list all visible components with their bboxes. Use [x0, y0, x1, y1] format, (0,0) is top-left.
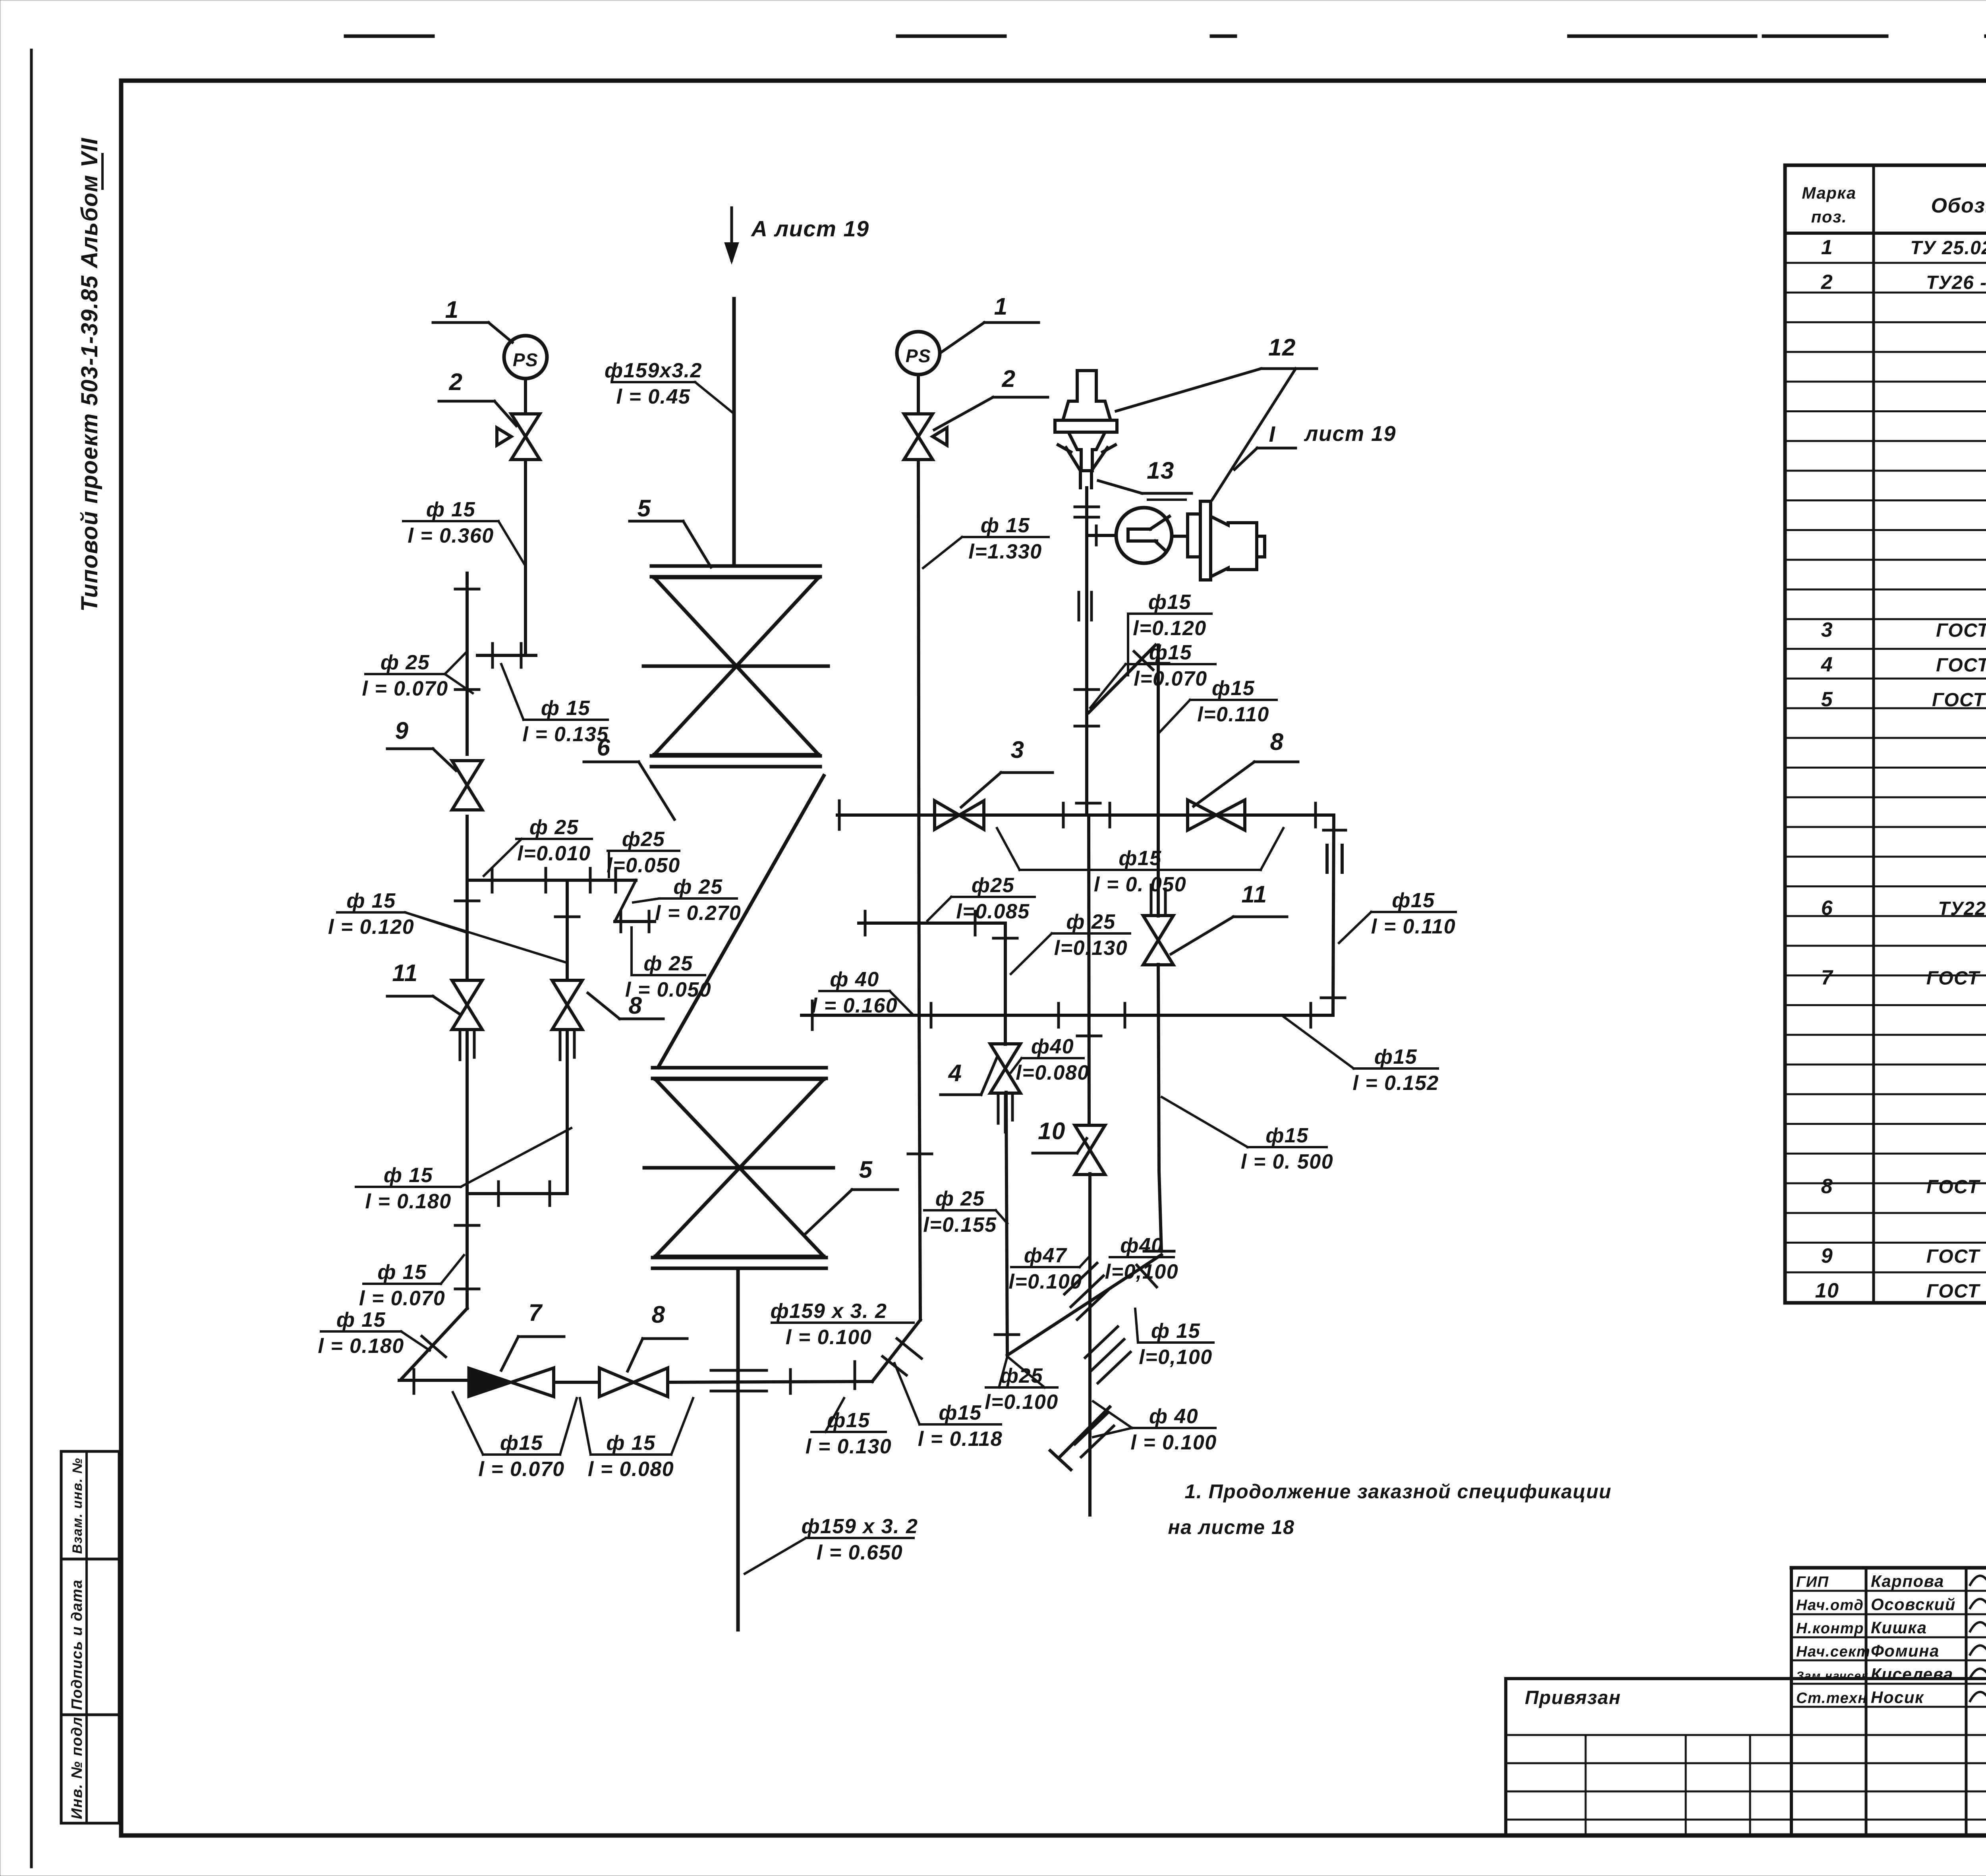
svg-text:l = 0.130: l = 0.130 — [806, 1435, 892, 1458]
valve 8b — [599, 1368, 668, 1397]
svg-text:l=0.050: l=0.050 — [607, 854, 680, 877]
position label 5 (upper gate valve) — [630, 495, 711, 567]
label ф15 l=1.330 — [923, 514, 1049, 568]
position label 8a — [588, 992, 663, 1019]
funnel feed 13 — [1058, 445, 1115, 488]
svg-text:6: 6 — [597, 734, 611, 761]
drain header right of valve 8b — [668, 1362, 872, 1393]
svg-text:1: 1 — [994, 293, 1008, 320]
svg-text:ф 40: ф 40 — [1149, 1405, 1198, 1428]
pipe gauge to valve 2 (left) — [524, 379, 527, 414]
drain header line left end — [399, 1370, 469, 1393]
union connector at left gauge line bottom — [477, 643, 536, 667]
svg-text:ф40: ф40 — [1120, 1234, 1163, 1257]
pressure gauge PS (left) — [504, 336, 547, 379]
svg-text:2: 2 — [1002, 365, 1016, 392]
svg-text:l = 0. 050: l = 0. 050 — [1094, 873, 1186, 896]
spec table body text — [1815, 236, 1986, 1302]
stub down to valve 8a — [555, 880, 579, 980]
svg-text:ГОСТ 18722-73*: ГОСТ 18722-73* — [1926, 1177, 1986, 1198]
svg-text:l = 0.135: l = 0.135 — [522, 723, 609, 746]
label ф25 l=0.010 — [484, 816, 592, 876]
svg-text:10: 10 — [1038, 1118, 1066, 1144]
label ф15 l=0.152 — [1284, 1017, 1439, 1095]
valve 11b — [1143, 916, 1173, 965]
svg-text:Фомина: Фомина — [1871, 1642, 1940, 1660]
valve 8c — [1188, 800, 1245, 830]
vent riser pipe — [1145, 645, 1169, 916]
svg-text:ф15: ф15 — [1265, 1124, 1308, 1147]
svg-text:Носик: Носик — [1871, 1688, 1924, 1707]
svg-text:l=0,100: l=0,100 — [1139, 1346, 1212, 1369]
manifold corner diagonal — [615, 880, 636, 922]
valve 11 (left) — [452, 980, 482, 1030]
svg-text:ГИП: ГИП — [1796, 1574, 1829, 1590]
label ф40 l=0.160 — [811, 968, 912, 1017]
vent riser lower corner — [1144, 1171, 1174, 1251]
spec table outer border — [1785, 165, 1986, 1303]
signatures scribbles — [1970, 1570, 1986, 1701]
label ф159x3.2 l=0.100 — [771, 1300, 914, 1349]
svg-text:l=0.100: l=0.100 — [1008, 1270, 1082, 1293]
pipe gauge to valve 2 (right) — [917, 375, 920, 414]
svg-text:l=0.010: l=0.010 — [517, 842, 591, 865]
hatch break marks group 3 — [1075, 1413, 1114, 1457]
left riser continues below valve 11 — [466, 1030, 469, 1194]
svg-text:11: 11 — [392, 960, 418, 986]
label ф25 l=0.270 — [633, 875, 741, 925]
position label 1 (right gauge) — [941, 293, 1039, 353]
position label 6 — [584, 734, 674, 819]
svg-text:Н.контр: Н.контр — [1796, 1620, 1864, 1637]
impulse header line 1 — [837, 801, 1334, 829]
title block outline — [1506, 1568, 1986, 1835]
svg-text:ф 15: ф 15 — [377, 1261, 427, 1284]
svg-text:ф 15: ф 15 — [336, 1308, 386, 1331]
position label 11 (right) — [1171, 881, 1287, 954]
branch to device 13 circle — [1087, 526, 1116, 545]
position label 12 — [1116, 334, 1317, 411]
valve 4 pipe continues down — [1006, 1092, 1007, 1355]
svg-text:l = 0.180: l = 0.180 — [365, 1190, 451, 1213]
position label 8c — [1194, 728, 1298, 806]
svg-text:6: 6 — [1821, 896, 1833, 920]
collector line 2 — [802, 1001, 1333, 1030]
valve 4 — [990, 1044, 1020, 1093]
svg-text:l = 0.650: l = 0.650 — [817, 1541, 903, 1564]
position label 2 (left three-way valve) — [439, 369, 516, 426]
svg-text:ф15: ф15 — [1392, 889, 1435, 912]
drain dashes below valve 11 — [460, 1031, 474, 1072]
position label 10 — [1033, 1118, 1087, 1153]
svg-text:ф25: ф25 — [622, 828, 665, 851]
label ф25 l=0.050 (second) — [625, 927, 711, 1001]
label ф15 l=0.180 (mid) — [356, 1128, 571, 1213]
svg-text:l = 0.45: l = 0.45 — [616, 385, 691, 408]
valve 4 stub below line 2 — [1004, 1015, 1007, 1044]
label ф15 l=0.070 (second) — [359, 1255, 464, 1310]
svg-text:PS: PS — [906, 346, 931, 366]
svg-text:l = 0.100: l = 0.100 — [1130, 1431, 1217, 1454]
svg-text:ГОСТ 8431-75*: ГОСТ 8431-75* — [1932, 690, 1986, 711]
label ф15 l=0.135 — [501, 664, 609, 746]
signature table grid — [1791, 1568, 1986, 1835]
spec table header bottom line — [1785, 232, 1986, 235]
spec table header text — [1802, 178, 1986, 226]
svg-text:l = 0.270: l = 0.270 — [655, 902, 741, 925]
label ф15 l=0.100 — [1135, 1309, 1213, 1369]
svg-text:ф 15: ф 15 — [541, 697, 590, 720]
svg-text:ф 15: ф 15 — [1151, 1320, 1200, 1343]
paper top edge (broken scan line) — [346, 35, 1986, 38]
svg-text:Нач.сект: Нач.сект — [1796, 1644, 1870, 1660]
position label 1 (left gauge) — [433, 296, 512, 342]
svg-text:l=0.085: l=0.085 — [956, 900, 1030, 923]
svg-text:l=0,100: l=0,100 — [1105, 1260, 1178, 1283]
sidebar box Подпись и дата — [61, 1559, 119, 1715]
label ф15 l=0.080 — [580, 1398, 693, 1481]
stub down to valve 11 left — [455, 880, 479, 980]
svg-text:12: 12 — [1268, 334, 1296, 361]
svg-text:l = 0.080: l = 0.080 — [588, 1458, 674, 1481]
svg-text:ф 15: ф 15 — [981, 514, 1030, 537]
lower connector between risers — [467, 1182, 567, 1206]
svg-text:7: 7 — [1821, 966, 1833, 989]
svg-text:Киселева: Киселева — [1871, 1665, 1953, 1683]
group action valve 6 GD-150 diagonal (Z symbol) — [658, 776, 824, 1067]
label ф15 l=0.130 — [806, 1398, 892, 1458]
leader 12 to lower regulator — [1212, 369, 1296, 500]
impulse pipe ф15 right (long drop) — [918, 460, 919, 1015]
pipe below valve 10 — [1088, 1174, 1092, 1515]
svg-text:1: 1 — [445, 296, 459, 323]
label ф15 l=0.110 (right) — [1339, 889, 1456, 943]
lower-left grid rows — [1506, 1735, 1986, 1835]
svg-text:ф159 х 3. 2: ф159 х 3. 2 — [802, 1515, 918, 1538]
position label 5 (lower gate valve) — [806, 1156, 898, 1233]
svg-text:Карпова: Карпова — [1871, 1572, 1944, 1590]
sidebar box Инв. № подл. — [61, 1712, 119, 1823]
svg-text:8: 8 — [629, 992, 643, 1019]
PS pipe below collector to drain diagonal — [908, 1015, 932, 1320]
svg-text:l = 0.070: l = 0.070 — [478, 1458, 564, 1481]
svg-text:Взам. инв. №: Взам. инв. № — [70, 1457, 85, 1554]
svg-text:Обозначение: Обозначение — [1931, 194, 1986, 217]
svg-text:ф47: ф47 — [1024, 1244, 1067, 1267]
label ф25 l=0.070 (left riser) — [362, 651, 473, 700]
big drain diagonal to valve4 pipe end — [1007, 1255, 1161, 1355]
diagonal drop to drain header — [402, 1308, 467, 1378]
svg-text:l = 0. 500: l = 0. 500 — [1241, 1150, 1333, 1173]
pressure regulator 12a (top) — [1055, 371, 1117, 471]
svg-text:ф159х3.2: ф159х3.2 — [605, 359, 702, 382]
label ф15 l=0.070 (drain) — [453, 1392, 577, 1481]
svg-text:А лист 19: А лист 19 — [750, 216, 869, 241]
label ф15 l=0.050 — [997, 828, 1283, 896]
svg-text:3: 3 — [1821, 618, 1833, 641]
svg-text:Нач.отд: Нач.отд — [1796, 1597, 1864, 1614]
label 13 second underline — [1148, 498, 1186, 501]
device 13 circle — [1116, 508, 1172, 563]
svg-text:8: 8 — [652, 1301, 666, 1328]
svg-text:l=0.110: l=0.110 — [1197, 703, 1269, 726]
valve 3 — [935, 801, 984, 829]
svg-text:l=0.120: l=0.120 — [1133, 617, 1206, 640]
svg-text:5: 5 — [859, 1156, 873, 1183]
label ф25 l=0.085 — [927, 874, 1035, 923]
svg-text:13: 13 — [1147, 457, 1175, 484]
drain header between valves — [554, 1381, 599, 1384]
hatch break marks group 1 — [1064, 1263, 1110, 1320]
svg-text:ф15: ф15 — [1374, 1045, 1417, 1068]
svg-text:2: 2 — [1821, 271, 1833, 294]
svg-text:ф 25: ф 25 — [529, 816, 579, 839]
manifold header line — [467, 868, 636, 892]
position label 3 — [961, 736, 1053, 807]
drain diagonal rise to PS pipe — [872, 1320, 922, 1381]
bottom drain tail with cap — [1050, 1407, 1110, 1470]
svg-text:ГОСТ 19501-74*: ГОСТ 19501-74* — [1926, 968, 1986, 989]
position label 7 — [501, 1299, 564, 1370]
svg-text:лист 19: лист 19 — [1304, 422, 1396, 446]
label ф47 l=0.100 — [1008, 1244, 1090, 1293]
spec table column lines — [1874, 165, 1986, 1303]
svg-text:ф159 х 3. 2: ф159 х 3. 2 — [771, 1300, 887, 1323]
position label 13 — [1098, 457, 1192, 493]
svg-text:Кишка: Кишка — [1871, 1618, 1927, 1637]
svg-text:Осовский: Осовский — [1871, 1595, 1956, 1614]
svg-text:ф 15: ф 15 — [384, 1164, 433, 1187]
gate valve 5 lower (GD-150 stack) — [644, 1068, 833, 1268]
branch ф25 upper (to line 2) — [859, 911, 1017, 1015]
svg-text:ТУ26 -07-061-73: ТУ26 -07-061-73 — [1926, 272, 1986, 294]
svg-text:ф 15: ф 15 — [606, 1432, 655, 1455]
svg-text:l=0.155: l=0.155 — [923, 1213, 997, 1236]
main pipe below lower gate valve — [736, 1268, 740, 1630]
svg-text:l=0.070: l=0.070 — [1134, 667, 1207, 690]
svg-text:l=0.080: l=0.080 — [1016, 1061, 1089, 1084]
label ф15 l=0.110 (first) — [1159, 677, 1277, 733]
svg-text:ф15: ф15 — [500, 1432, 543, 1455]
riser 8a continues below valve 8a — [566, 1030, 569, 1194]
signature table text — [1796, 1572, 1956, 1707]
svg-text:ф 15: ф 15 — [426, 498, 475, 521]
svg-text:7: 7 — [529, 1299, 543, 1326]
svg-text:ф 15: ф 15 — [346, 889, 396, 912]
svg-text:Подпись и дата: Подпись и дата — [69, 1579, 85, 1710]
svg-text:l=0.100: l=0.100 — [985, 1391, 1058, 1414]
svg-text:10: 10 — [1815, 1279, 1839, 1302]
svg-text:l = 0.070: l = 0.070 — [359, 1287, 445, 1310]
svg-text:ф15: ф15 — [1149, 641, 1192, 664]
svg-text:3: 3 — [1011, 736, 1025, 763]
impulse pipe from funnel down — [1075, 488, 1099, 815]
svg-text:l = 0.160: l = 0.160 — [811, 994, 898, 1017]
arrow А лист 19 — [725, 208, 869, 262]
svg-text:ф15: ф15 — [1148, 591, 1191, 614]
svg-text:8: 8 — [1270, 728, 1284, 755]
svg-text:1: 1 — [1821, 236, 1833, 259]
svg-text:Ст.техн: Ст.техн — [1796, 1690, 1868, 1707]
capped stub ф25 l=0.270 — [615, 911, 655, 932]
label ф25 l=0.050 (first) — [607, 828, 680, 877]
svg-text:ф 25: ф 25 — [643, 952, 693, 975]
label ф15 l=0.070 (right) — [1090, 641, 1215, 708]
svg-text:ф 25: ф 25 — [381, 651, 430, 674]
label ф15 l=0.120 (right) — [1128, 591, 1211, 675]
drain dashes below valve 8a — [560, 1031, 574, 1072]
svg-text:ф15: ф15 — [1119, 847, 1161, 870]
svg-text:ГОСТ 18722-73*: ГОСТ 18722-73* — [1926, 1281, 1986, 1302]
vent riser below valve 11b — [1158, 964, 1159, 1171]
left drop pipe with unions — [455, 1194, 479, 1308]
line 1 corner down — [1321, 815, 1346, 1015]
svg-text:8: 8 — [1821, 1175, 1833, 1198]
gate valve 5 upper (GD-150 stack) — [643, 566, 828, 767]
tick on valve 4 drop pipe — [995, 1333, 1019, 1336]
svg-text:9: 9 — [395, 717, 409, 744]
position label 2 (right three-way valve) — [934, 365, 1048, 430]
pressure gauge PS (right) — [897, 332, 940, 375]
svg-text:l = 0.100: l = 0.100 — [786, 1326, 872, 1349]
spec table row lines — [1785, 263, 1986, 1272]
label ф15 l=0.360 — [403, 498, 525, 566]
svg-text:ф15: ф15 — [939, 1401, 981, 1424]
svg-text:Зам.начсек: Зам.начсек — [1796, 1669, 1868, 1683]
paper left edge line — [30, 50, 33, 1867]
hatch break marks group 2 — [1085, 1327, 1130, 1383]
label ф40 l=0.100 (lower) — [1093, 1401, 1217, 1454]
svg-text:4: 4 — [1821, 653, 1833, 676]
label ф159x3.2 l=0.650 — [745, 1515, 918, 1574]
pressure regulator 12b (right) — [1188, 501, 1265, 580]
svg-text:Инв. № подл.: Инв. № подл. — [69, 1712, 85, 1819]
svg-text:l = 0.110: l = 0.110 — [1371, 915, 1456, 938]
pipe crossing break marks at big pipe — [711, 1370, 767, 1391]
svg-text:l = 0.118: l = 0.118 — [918, 1428, 1003, 1451]
svg-text:l = 0.360: l = 0.360 — [408, 524, 494, 547]
svg-text:ф25: ф25 — [972, 874, 1014, 897]
svg-text:1. Продолжение заказной: 1. Продолжение заказной спецификации — [1185, 1480, 1612, 1503]
svg-text:I: I — [1269, 421, 1275, 446]
connector circle to regulator 12b — [1172, 535, 1188, 538]
vent riser valve 11b with dashes — [1151, 885, 1165, 914]
label ф25 l=0.130 — [1011, 910, 1130, 974]
union bars on impulse pipe — [1079, 592, 1092, 620]
svg-text:ТУ22-3853-77: ТУ22-3853-77 — [1938, 898, 1986, 919]
svg-text:Марка: Марка — [1802, 184, 1856, 202]
svg-text:Типовой проект 503-1-39.85 Ал: Типовой проект 503-1-39.85 Альбом VII — [77, 137, 102, 612]
three-way valve 2 (right) — [904, 414, 947, 460]
svg-text:PS: PS — [513, 350, 538, 370]
left riser pipe ф25 — [455, 573, 479, 754]
main pipe ф159 upper — [732, 299, 736, 566]
svg-text:ф 40: ф 40 — [830, 968, 879, 991]
svg-text:ф 25: ф 25 — [1066, 910, 1115, 933]
svg-text:2: 2 — [449, 369, 463, 395]
sidebar inner divider — [85, 1451, 88, 1823]
svg-text:на листе 18: на листе 18 — [1168, 1516, 1295, 1538]
label ф15 l=0.118 — [894, 1363, 1003, 1451]
svg-text:4: 4 — [948, 1060, 962, 1086]
left margin stamp text Типовой проект 503-1-39.85 Альбом VII — [77, 137, 102, 612]
svg-text:l = 0.180: l = 0.180 — [318, 1335, 404, 1358]
svg-text:ГОСТ 2704-77: ГОСТ 2704-77 — [1936, 655, 1986, 676]
svg-text:ф 25: ф 25 — [935, 1187, 985, 1210]
svg-text:l = 0.070: l = 0.070 — [362, 677, 448, 700]
label ф15 l=0.180 (lower) — [318, 1308, 430, 1358]
svg-text:l = 0.120: l = 0.120 — [328, 916, 414, 939]
label ф15 l=0.120 (left) — [328, 889, 567, 963]
drain dashes below valve 4 — [998, 1094, 1012, 1132]
svg-text:5: 5 — [1821, 688, 1833, 711]
svg-text:l = 0.152: l = 0.152 — [1352, 1072, 1439, 1095]
svg-text:ГОСТ 18722-73*: ГОСТ 18722-73* — [1926, 1246, 1986, 1267]
svg-text:поз.: поз. — [1811, 207, 1847, 226]
svg-text:ф 25: ф 25 — [673, 875, 723, 898]
position label 4 — [941, 1057, 997, 1095]
check valve 7 — [469, 1368, 554, 1397]
svg-text:ТУ 25.02.181071-18: ТУ 25.02.181071-18 — [1910, 238, 1986, 259]
svg-text:ф40: ф40 — [1031, 1035, 1074, 1058]
sidebar box Взам. инв. № — [61, 1451, 119, 1559]
label ф159x3.2 l=0.45 — [605, 359, 733, 413]
position label 8b — [628, 1301, 687, 1371]
svg-text:l=1.330: l=1.330 — [968, 540, 1042, 563]
svg-text:11: 11 — [1241, 881, 1267, 908]
svg-text:5: 5 — [638, 495, 651, 522]
label ф40 l=0.100 (upper) — [1105, 1234, 1178, 1283]
drop pipe ф40 to valve 10 — [1076, 803, 1101, 1125]
svg-text:ф15: ф15 — [827, 1409, 870, 1432]
svg-text:9: 9 — [1821, 1244, 1833, 1267]
position label 11 (left) — [387, 960, 461, 1015]
svg-text:ф15: ф15 — [1212, 677, 1255, 700]
svg-text:ГОСТ 2704-77: ГОСТ 2704-77 — [1936, 620, 1986, 641]
svg-text:l=0.130: l=0.130 — [1054, 937, 1128, 960]
label ф15 l=0.500 — [1162, 1097, 1333, 1173]
position label 9 — [387, 717, 456, 771]
branch diagonal to vent riser — [1089, 645, 1155, 713]
label ф25 l=0.100 — [985, 1356, 1058, 1414]
valve 10 — [1075, 1125, 1105, 1175]
svg-text:Привязан: Привязан — [1525, 1687, 1621, 1708]
valve 9 — [452, 761, 482, 810]
label ф25 l=0.155 — [923, 1187, 1007, 1236]
text I лист 19 — [1234, 421, 1396, 469]
left riser pipe below valve 9 — [466, 816, 469, 880]
three-way valve 2 (left) — [497, 414, 540, 460]
label ф40 l=0.080 — [1011, 1035, 1090, 1084]
valve 8a — [552, 980, 582, 1030]
impulse pipe ф15 left (valve 2 down) — [524, 460, 527, 655]
